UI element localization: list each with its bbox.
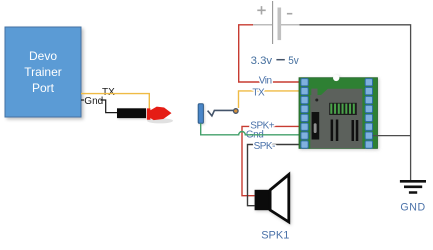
wire SPK- (black) from module pin8 to speaker	[248, 145, 300, 206]
battery BT1	[252, 1, 300, 44]
slot parts (black)	[312, 112, 320, 140]
svg-text:SPK+: SPK+	[250, 121, 275, 132]
pins right	[365, 79, 372, 149]
svg-text:Trainer: Trainer	[24, 65, 62, 79]
SD slot (gray)	[310, 89, 362, 148]
top notch	[333, 75, 339, 81]
negative plate (short thick)	[278, 8, 282, 41]
svg-text:Gnd: Gnd	[84, 96, 103, 107]
svg-text:TX: TX	[102, 87, 115, 98]
jack tip terminal circle	[234, 109, 239, 114]
wire battery+ (red) to Vin pin1	[239, 25, 299, 82]
audio plug J1 (black body)	[117, 108, 173, 123]
minus sign	[287, 13, 292, 15]
jack socket tip contact (whisker)	[208, 110, 234, 116]
svg-text:Devo: Devo	[29, 49, 57, 63]
svg-text:Port: Port	[32, 81, 55, 95]
plus sign	[257, 6, 265, 14]
svg-text:Vin: Vin	[259, 76, 272, 87]
wire module right pin7 to GND rail	[373, 135, 411, 137]
wire TX (orange) from module pin2 down to jack terminal	[239, 91, 300, 108]
wire Gnd (green) from jack sleeve to module pin7	[201, 123, 299, 135]
contact fingers	[329, 103, 357, 115]
audio plug tip (red arrow)	[147, 107, 172, 121]
DFPlayer module U1	[299, 75, 378, 149]
svg-text:TX: TX	[252, 88, 265, 99]
wire battery- (dark gray) to GND rail	[300, 25, 411, 180]
svg-text:5v: 5v	[288, 55, 299, 67]
wire SPK+ (red) from module pin6 to speaker	[242, 126, 299, 195]
positive plate (long thin)	[272, 1, 274, 44]
PCB body	[299, 78, 378, 149]
pins left	[301, 79, 308, 149]
jack socket J2 (blue bar)	[198, 104, 203, 124]
wire Gnd (black) from Devo box to plug sleeve	[81, 99, 84, 101]
battery lead stubs	[252, 24, 272, 26]
Devo Trainer Port box	[5, 27, 81, 117]
speaker SPK1	[255, 175, 289, 223]
svg-text:3.3v: 3.3v	[251, 55, 273, 67]
svg-text:SPK1: SPK1	[261, 230, 289, 242]
ground symbol	[400, 181, 426, 192]
svg-text:GND: GND	[400, 202, 425, 214]
svg-text:SPK-: SPK-	[254, 141, 276, 152]
wire TX (orange) from Devo box to plug tip	[81, 94, 149, 109]
